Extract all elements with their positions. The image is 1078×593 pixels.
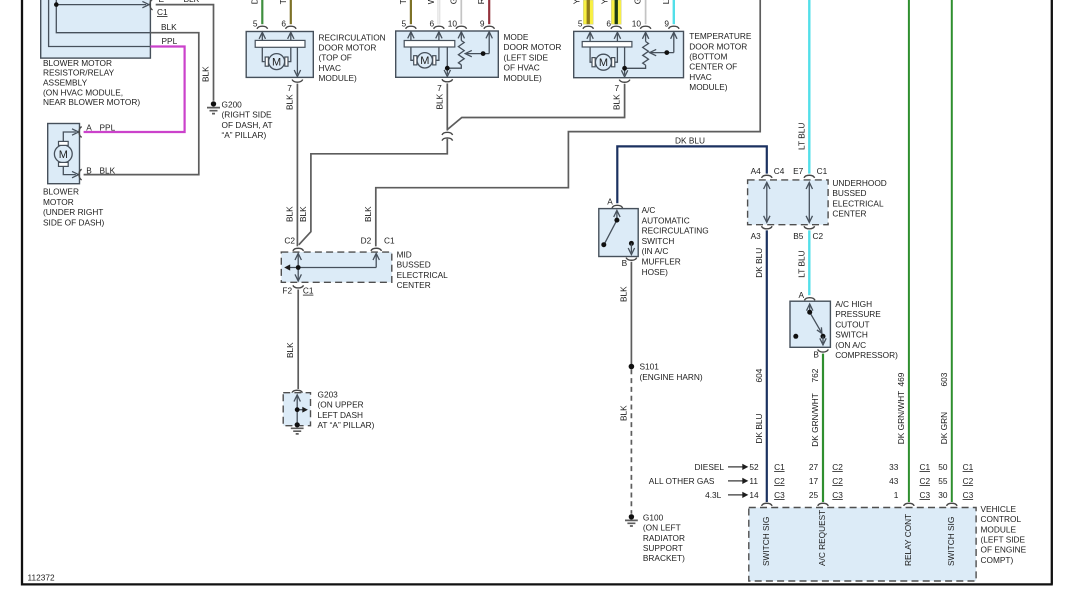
svg-text:17: 17 (809, 476, 819, 486)
wire BLK from top right to D2 (363, 0, 760, 246)
mode pin 5 (401, 19, 416, 29)
wire BLK F2 to G203 (285, 290, 298, 390)
svg-text:E: E (159, 0, 165, 4)
svg-text:C2: C2 (920, 476, 931, 486)
wire LT BLU to temp pin 9 (661, 0, 674, 24)
svg-text:BLK: BLK (284, 206, 294, 222)
svg-text:762: 762 (810, 368, 820, 382)
svg-text:C3: C3 (832, 490, 843, 500)
svg-text:A/C: A/C (642, 205, 656, 215)
svg-text:C4: C4 (774, 166, 785, 176)
svg-text:B: B (813, 350, 819, 360)
svg-text:C2: C2 (284, 236, 295, 246)
inline connector on BLK wire (442, 132, 453, 140)
svg-text:C2: C2 (832, 476, 843, 486)
svg-text:(LEFT SIDE: (LEFT SIDE (504, 52, 549, 62)
wire RED to mode pin 9 (476, 0, 489, 24)
svg-text:C2: C2 (774, 476, 785, 486)
wire TAN to recirc pin 6 (278, 0, 291, 24)
wire BLK resistor assembly to blower motor B (84, 22, 199, 174)
svg-text:M: M (420, 55, 429, 67)
svg-text:(LEFT SIDE: (LEFT SIDE (981, 535, 1026, 545)
terminal A blower motor (79, 122, 116, 137)
vehicle control module (749, 504, 1027, 581)
recirc pin 7 (287, 80, 302, 94)
svg-text:603: 603 (939, 372, 949, 386)
svg-text:(ON LEFT: (ON LEFT (643, 523, 681, 533)
ground G200 (207, 100, 273, 141)
svg-text:BLK: BLK (285, 342, 295, 358)
wire BLK switch B to S101 (618, 262, 631, 367)
wire DK GRN to recirc pin 5 (249, 0, 262, 24)
underhood bussed electrical center (748, 178, 887, 225)
wire LT BLU from top to underhood E7 (796, 0, 809, 174)
svg-text:BLK: BLK (184, 0, 200, 4)
wire GRY to temp pin 10 (633, 0, 646, 24)
connector E7 C1 (underhood) (793, 166, 827, 178)
svg-text:A: A (798, 290, 804, 300)
svg-text:43: 43 (889, 476, 899, 486)
recirc pin 6 (281, 19, 296, 29)
svg-text:PRESSURE: PRESSURE (835, 309, 881, 319)
svg-text:112372: 112372 (28, 573, 55, 583)
blower motor resistor/relay assembly (41, 0, 151, 107)
svg-text:MOTOR: MOTOR (43, 197, 74, 207)
svg-text:27: 27 (809, 462, 819, 472)
svg-text:LT BLU: LT BLU (796, 250, 806, 277)
connector C2 (mid bussed) (284, 236, 303, 251)
svg-text:SWITCH SIG: SWITCH SIG (946, 517, 956, 566)
wire BLK mode pin7 down (434, 83, 447, 130)
svg-text:5: 5 (578, 19, 583, 29)
svg-text:YEL: YEL (600, 0, 610, 4)
svg-text:DK GRN/WHT: DK GRN/WHT (810, 393, 820, 446)
svg-text:604: 604 (754, 368, 764, 382)
temp pin 10 (632, 19, 651, 29)
wire YEL (dk grn stripe) to temp pin 6 (600, 0, 622, 24)
svg-text:F2: F2 (282, 286, 292, 296)
svg-text:RADIATOR: RADIATOR (643, 533, 685, 543)
svg-text:B: B (86, 166, 92, 176)
svg-text:CONTROL: CONTROL (981, 514, 1022, 524)
svg-text:C1: C1 (774, 462, 785, 472)
svg-text:MODULE): MODULE) (689, 82, 727, 92)
svg-text:LT BLU: LT BLU (796, 123, 806, 150)
svg-text:TAN: TAN (398, 0, 408, 4)
svg-text:HVAC: HVAC (689, 72, 711, 82)
svg-text:A4: A4 (751, 166, 762, 176)
wire BLK S101 to G100 (dashed) (618, 369, 631, 514)
svg-text:(ON UPPER: (ON UPPER (318, 400, 364, 410)
wire GRY to mode pin 10 (448, 0, 461, 24)
VCM connector (469) (904, 503, 915, 506)
svg-text:C1: C1 (963, 462, 974, 472)
svg-text:BLK: BLK (201, 66, 211, 82)
svg-text:(IN A/C: (IN A/C (642, 246, 669, 256)
svg-text:4.3L: 4.3L (705, 490, 722, 500)
svg-text:GRY: GRY (633, 0, 643, 4)
svg-text:C3: C3 (963, 490, 974, 500)
svg-text:ASSEMBLY: ASSEMBLY (43, 78, 88, 88)
mode pin 10 (448, 19, 467, 29)
temperature door motor (574, 31, 752, 92)
svg-text:DK BLU: DK BLU (675, 135, 705, 145)
svg-text:469: 469 (896, 372, 906, 386)
wire PPL resistor assembly to blower motor A (84, 36, 185, 132)
svg-text:C2: C2 (963, 476, 974, 486)
connector A4 C4 (underhood) (751, 166, 785, 178)
svg-text:BLK: BLK (612, 94, 622, 110)
connector C1 (resistor assembly) (150, 0, 200, 17)
svg-text:RECIRCULATING: RECIRCULATING (642, 226, 709, 236)
svg-text:HVAC: HVAC (319, 63, 341, 73)
svg-text:MODULE: MODULE (981, 524, 1017, 534)
svg-text:1: 1 (894, 490, 899, 500)
blower motor (43, 124, 105, 228)
svg-text:BLK: BLK (161, 22, 177, 32)
mode pin 6 (429, 19, 444, 29)
svg-text:C3: C3 (920, 490, 931, 500)
svg-text:BUSSED: BUSSED (832, 188, 866, 198)
svg-text:G203: G203 (318, 390, 339, 400)
svg-text:BLK: BLK (298, 206, 308, 222)
svg-text:SUPPORT: SUPPORT (643, 543, 683, 553)
temp pin 9 (664, 19, 679, 29)
wire YEL (olive stripe) to temp pin 5 (572, 0, 594, 24)
svg-text:BUSSED: BUSSED (397, 260, 431, 270)
svg-text:M: M (272, 57, 281, 69)
terminal B pressure switch (813, 349, 828, 359)
svg-text:MODULE): MODULE) (504, 73, 542, 83)
svg-text:CUTOUT: CUTOUT (835, 319, 869, 329)
svg-text:BLOWER MOTOR: BLOWER MOTOR (43, 58, 112, 68)
svg-text:E7: E7 (793, 166, 804, 176)
svg-text:BLK: BLK (100, 166, 116, 176)
svg-text:6: 6 (429, 19, 434, 29)
svg-text:A3: A3 (751, 231, 762, 241)
svg-text:PPL: PPL (162, 36, 178, 46)
svg-text:30: 30 (938, 490, 948, 500)
wire DK GRN/WHT 469 from top to VCM (896, 0, 909, 502)
terminal A recirc switch (607, 196, 622, 208)
svg-text:C1: C1 (303, 286, 314, 296)
svg-text:BRACKET): BRACKET) (643, 553, 685, 563)
svg-text:A/C HIGH: A/C HIGH (835, 299, 872, 309)
svg-text:DK BLU: DK BLU (754, 248, 764, 278)
svg-text:55: 55 (938, 476, 948, 486)
svg-text:33: 33 (889, 462, 899, 472)
VCM connector (603) (947, 503, 958, 506)
svg-text:9: 9 (664, 19, 669, 29)
recirculation door motor (246, 32, 385, 84)
svg-text:(UNDER RIGHT: (UNDER RIGHT (43, 207, 103, 217)
wire LT BLU B5 to pressure switch A (796, 230, 809, 295)
svg-text:BLK: BLK (363, 206, 373, 222)
svg-text:C1: C1 (817, 166, 828, 176)
svg-text:6: 6 (606, 19, 611, 29)
connector F2 C1 (mid bussed) (282, 285, 313, 295)
mode door motor (396, 31, 562, 83)
svg-text:MID: MID (397, 249, 412, 259)
svg-text:CENTER: CENTER (397, 280, 431, 290)
svg-text:ELECTRICAL: ELECTRICAL (832, 198, 884, 208)
connector D2 C1 (mid bussed) (361, 236, 395, 251)
svg-text:6: 6 (281, 19, 286, 29)
svg-text:(ENGINE HARN): (ENGINE HARN) (640, 372, 703, 382)
splice S101 (629, 362, 703, 382)
svg-text:25: 25 (809, 490, 819, 500)
temp pin 6 (606, 19, 621, 29)
svg-text:A: A (86, 122, 92, 132)
svg-text:BLOWER: BLOWER (43, 187, 79, 197)
wire BLK from inline connector to C2 (via jog) (298, 139, 447, 245)
svg-text:9: 9 (480, 19, 485, 29)
ground G100 (625, 512, 685, 563)
wire BLK recirc pin7 down to C2 (284, 84, 297, 247)
svg-text:AUTOMATIC: AUTOMATIC (642, 215, 690, 225)
A/C automatic recirculating switch (599, 205, 709, 277)
svg-text:A: A (607, 196, 613, 206)
connector B5 C2 (underhood) (793, 226, 823, 241)
svg-text:LT BLU: LT BLU (661, 0, 671, 4)
svg-text:UNDERHOOD: UNDERHOOD (832, 178, 886, 188)
svg-text:C3: C3 (774, 490, 785, 500)
svg-text:COMPT): COMPT) (981, 555, 1014, 565)
svg-text:10: 10 (632, 19, 642, 29)
svg-text:50: 50 (938, 462, 948, 472)
svg-text:RED: RED (476, 0, 486, 4)
svg-text:OF ENGINE: OF ENGINE (981, 545, 1027, 555)
svg-text:G100: G100 (643, 512, 664, 522)
svg-text:RECIRCULATION: RECIRCULATION (319, 32, 386, 42)
svg-text:LEFT DASH: LEFT DASH (318, 410, 364, 420)
svg-text:SIDE OF DASH): SIDE OF DASH) (43, 217, 105, 227)
svg-text:DIESEL: DIESEL (695, 462, 725, 472)
svg-text:10: 10 (448, 19, 458, 29)
wire TAN to mode pin 5 (398, 0, 411, 24)
svg-text:DK GRN/WHT: DK GRN/WHT (896, 391, 906, 444)
svg-text:(BOTTOM: (BOTTOM (689, 52, 727, 62)
wire BLK temp pin7 to mode BLK junction (447, 84, 624, 130)
svg-text:7: 7 (437, 83, 442, 93)
svg-text:A/C REQUEST: A/C REQUEST (817, 510, 827, 566)
svg-text:DK GRN: DK GRN (249, 0, 259, 4)
svg-text:AT “A” PILLAR): AT “A” PILLAR) (318, 420, 375, 430)
svg-text:B5: B5 (793, 231, 804, 241)
A/C high pressure cutout switch (790, 299, 898, 360)
svg-text:CENTER: CENTER (832, 209, 866, 219)
svg-text:5: 5 (401, 19, 406, 29)
svg-text:TAN: TAN (278, 0, 288, 4)
connector A3 (underhood) (751, 226, 772, 241)
svg-text:14: 14 (749, 490, 759, 500)
wire WHT to mode pin 6 (426, 0, 439, 24)
svg-text:(RIGHT SIDE: (RIGHT SIDE (222, 110, 273, 120)
wire DK BLU switch A to underhood A4 (617, 135, 767, 203)
svg-text:PPL: PPL (100, 122, 116, 132)
svg-text:BLK: BLK (284, 94, 294, 110)
svg-text:S101: S101 (640, 362, 660, 372)
svg-text:7: 7 (287, 83, 292, 93)
svg-text:11: 11 (749, 476, 758, 486)
svg-text:C1: C1 (920, 462, 931, 472)
VCM connector (762) (818, 503, 829, 506)
mid bussed electrical center (281, 249, 448, 290)
svg-text:G200: G200 (222, 100, 243, 110)
svg-text:C1: C1 (384, 236, 395, 246)
svg-text:OF DASH, AT: OF DASH, AT (222, 120, 273, 130)
svg-text:ELECTRICAL: ELECTRICAL (397, 270, 449, 280)
svg-text:“A” PILLAR): “A” PILLAR) (222, 130, 267, 140)
svg-text:BLK: BLK (618, 405, 628, 421)
wire BLK from C1-E to G200 (156, 5, 214, 101)
svg-text:SWITCH: SWITCH (642, 236, 675, 246)
svg-text:OF HVAC: OF HVAC (504, 63, 540, 73)
svg-text:(TOP OF: (TOP OF (319, 53, 352, 63)
svg-text:MODULE): MODULE) (319, 73, 357, 83)
svg-text:NEAR BLOWER MOTOR): NEAR BLOWER MOTOR) (43, 97, 140, 107)
mode pin 7 (437, 79, 452, 93)
svg-text:D2: D2 (361, 236, 372, 246)
row 4.3L pins (705, 490, 973, 500)
wire DK GRN 603 from top to VCM (939, 0, 952, 502)
recirc pin 5 (253, 19, 268, 29)
svg-text:MODE: MODE (504, 32, 529, 42)
ground G203 (283, 390, 374, 434)
svg-text:BLK: BLK (618, 286, 628, 302)
row ALL OTHER GAS pins (649, 476, 974, 486)
temp pin 5 (578, 19, 594, 29)
wire DK BLU A3 to VCM (754, 230, 767, 502)
svg-text:DOOR MOTOR: DOOR MOTOR (319, 43, 377, 53)
svg-text:52: 52 (749, 462, 759, 472)
svg-text:HOSE): HOSE) (642, 267, 669, 277)
svg-text:(ON HVAC MODULE,: (ON HVAC MODULE, (43, 87, 123, 97)
svg-text:DK GRN: DK GRN (939, 412, 949, 444)
svg-text:CENTER OF: CENTER OF (689, 62, 737, 72)
svg-text:M: M (599, 57, 608, 69)
svg-text:C2: C2 (813, 231, 824, 241)
svg-text:RESISTOR/RELAY: RESISTOR/RELAY (43, 68, 115, 78)
VCM connector (DK BLU) (762, 503, 773, 506)
svg-text:M: M (59, 149, 68, 161)
mode pin 9 (480, 19, 495, 29)
svg-text:C1: C1 (157, 7, 168, 17)
svg-text:(ON A/C: (ON A/C (835, 340, 866, 350)
svg-text:SWITCH SIG: SWITCH SIG (761, 517, 771, 566)
svg-text:MUFFLER: MUFFLER (642, 257, 681, 267)
svg-text:WHT: WHT (426, 0, 436, 4)
svg-text:7: 7 (614, 83, 619, 93)
svg-text:5: 5 (253, 19, 258, 29)
svg-text:VEHICLE: VEHICLE (981, 504, 1017, 514)
svg-text:YEL: YEL (572, 0, 582, 4)
svg-text:ALL OTHER GAS: ALL OTHER GAS (649, 476, 715, 486)
svg-text:C2: C2 (832, 462, 843, 472)
terminal B blower motor (79, 166, 116, 180)
svg-text:RELAY CONT: RELAY CONT (903, 514, 913, 566)
svg-text:DOOR MOTOR: DOOR MOTOR (689, 41, 747, 51)
terminal A pressure switch (798, 290, 815, 300)
svg-text:TEMPERATURE: TEMPERATURE (689, 31, 752, 41)
svg-text:GRY: GRY (448, 0, 458, 4)
row DIESEL pins (695, 462, 974, 472)
wire DK GRN/WHT 762 switch B to VCM (810, 354, 823, 502)
svg-text:DK BLU: DK BLU (754, 414, 764, 444)
svg-text:B: B (622, 258, 628, 268)
terminal B recirc switch (622, 258, 637, 268)
svg-text:SWITCH: SWITCH (835, 330, 868, 340)
svg-text:DOOR MOTOR: DOOR MOTOR (504, 42, 562, 52)
svg-text:BLK: BLK (434, 93, 444, 109)
temp pin 7 (614, 80, 629, 93)
svg-text:COMPRESSOR): COMPRESSOR) (835, 350, 898, 360)
